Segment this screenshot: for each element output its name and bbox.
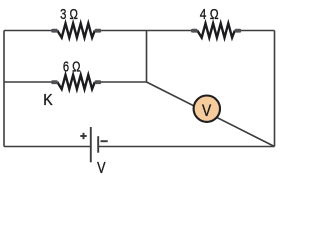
wire: bottom-left segment to battery bbox=[4, 146, 90, 148]
battery V1 bbox=[80, 127, 107, 162]
svg-text:V: V bbox=[202, 102, 211, 120]
wire: middle branch left of 6-ohm resistor bbox=[4, 81, 53, 83]
wire: top middle segment between resistors bbox=[99, 30, 193, 32]
wire: right vertical side bbox=[274, 31, 276, 147]
svg-text:K: K bbox=[43, 92, 53, 109]
wire: bottom-right segment from battery bbox=[99, 146, 275, 148]
plus sign bbox=[80, 135, 86, 137]
wire: left vertical side bbox=[3, 31, 5, 147]
battery long plate (+) bbox=[90, 127, 92, 162]
resistor R3 6 ohm bbox=[51, 75, 101, 89]
svg-text:4 Ω: 4 Ω bbox=[200, 6, 219, 23]
svg-text:V: V bbox=[97, 160, 106, 177]
wire: top-right segment after 4-ohm resistor bbox=[236, 30, 275, 32]
svg-text:6 Ω: 6 Ω bbox=[63, 59, 81, 76]
resistor R1 3 ohm bbox=[51, 23, 101, 37]
wire: top-left segment to 3-ohm resistor bbox=[4, 30, 53, 32]
minus sign bbox=[101, 140, 108, 142]
svg-text:3 Ω: 3 Ω bbox=[60, 6, 78, 23]
voltmeter U1 bbox=[194, 96, 220, 122]
resistor R2 4 ohm bbox=[191, 23, 241, 37]
wire: diagonal wire through voltmeter to bottom-right corner bbox=[147, 82, 275, 147]
wire: middle branch right of 6-ohm resistor bbox=[99, 81, 147, 83]
battery short plate (-) bbox=[97, 136, 99, 153]
wire: vertical junction wire at node between 3-ohm and 4-ohm bbox=[146, 31, 148, 83]
